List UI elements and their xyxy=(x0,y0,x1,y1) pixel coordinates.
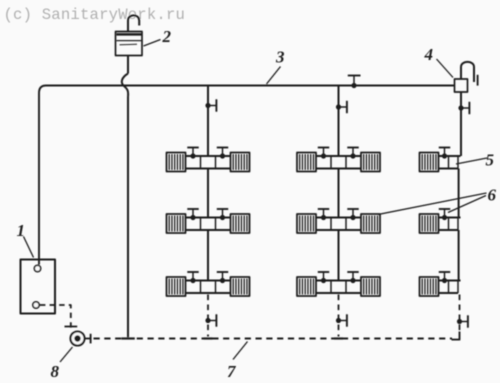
expansion pipe from tank down to crossing xyxy=(127,56,129,74)
label 7 with leader xyxy=(227,342,248,382)
valve column3 row3 xyxy=(439,272,450,283)
radiator column3 row1 xyxy=(420,153,439,172)
label 6 with leaders xyxy=(378,186,497,215)
pump outlet stub with flange tick xyxy=(85,334,91,344)
air collector 4 box xyxy=(455,79,468,92)
radiator column1 row3 right xyxy=(231,277,250,296)
valve on riser 1 return xyxy=(205,314,216,326)
return main 7 dashed xyxy=(94,338,453,340)
valve column1 row2 left xyxy=(187,209,198,220)
riser 3 dashed return segment xyxy=(459,295,461,331)
riser 2 segment rows 2-3 xyxy=(338,230,340,281)
connection pipes column3 row1 xyxy=(439,156,461,169)
riser 3 upper segment xyxy=(460,92,462,156)
valve column2 row3 right xyxy=(347,272,358,283)
junction of riser 2 with return main xyxy=(334,337,343,339)
valve on riser 2 return xyxy=(336,314,347,326)
expansion pipe vertical down to return line xyxy=(127,97,129,338)
connection pipes column1 row2 xyxy=(186,218,231,231)
valve column2 row1 left xyxy=(318,148,329,159)
svg-text:3: 3 xyxy=(275,48,285,67)
radiator column2 row2 right xyxy=(361,214,380,233)
return main right corner elbow xyxy=(452,332,460,340)
boiler 1 xyxy=(21,260,56,314)
riser 2 upper segment xyxy=(338,86,340,157)
connection pipes column3 row3 xyxy=(439,281,461,294)
valve column2 row2 left xyxy=(318,209,329,220)
riser 1 segment rows 1-2 xyxy=(207,169,209,218)
valve on riser 2 top xyxy=(336,101,347,113)
connection pipes column3 row2 xyxy=(439,218,461,231)
radiator column2 row3 right xyxy=(361,277,380,296)
connection pipes column2 row2 xyxy=(316,218,361,231)
riser 2 segment rows 1-2 xyxy=(338,169,340,218)
dashed pipe from boiler to pump xyxy=(40,305,71,331)
valve column1 row3 right xyxy=(217,272,228,283)
connection pipes column2 row1 xyxy=(316,156,361,169)
radiator column2 row1 left xyxy=(297,153,316,172)
junction tick of expansion pipe on return xyxy=(122,337,135,339)
riser 1 segment rows 2-3 xyxy=(207,230,209,281)
valve column1 row1 right xyxy=(217,148,228,159)
radiator column2 row1 right xyxy=(361,153,380,172)
overflow hook pipe of expansion tank xyxy=(128,15,139,32)
valve on riser 3 top xyxy=(458,102,469,114)
connection pipes column1 row1 xyxy=(186,156,231,169)
label 5 with leader xyxy=(456,151,495,170)
label 3 with leader xyxy=(267,48,286,85)
riser 1 upper segment xyxy=(207,86,209,157)
connection pipes column1 row3 xyxy=(186,281,231,294)
valve column1 row2 right xyxy=(217,209,228,220)
valve column2 row2 right xyxy=(347,209,358,220)
svg-text:6: 6 xyxy=(488,186,497,205)
valve column1 row1 left xyxy=(187,148,198,159)
riser 1 dashed return segment xyxy=(207,295,209,337)
radiator column3 row2 xyxy=(420,214,439,233)
svg-text:(c) SanitaryWork.ru: (c) SanitaryWork.ru xyxy=(4,6,186,24)
valve column1 row3 left xyxy=(187,272,198,283)
pipe crossing jump over supply main xyxy=(122,74,128,97)
expansion tank 2 xyxy=(116,32,143,56)
valve on supply main xyxy=(348,76,361,89)
valve on riser 3 return xyxy=(457,315,468,327)
label 1 with leader xyxy=(17,221,34,258)
radiator column1 row2 left xyxy=(167,214,186,233)
pump 8 xyxy=(71,332,85,346)
tick on pump inlet pipe xyxy=(65,326,78,328)
riser 3 segment rows 2-3 xyxy=(458,230,460,282)
riser 3 segment rows 1-2 xyxy=(458,169,460,219)
supply main 3 horizontal xyxy=(46,85,455,87)
label 8 with leader xyxy=(51,347,73,381)
svg-text:7: 7 xyxy=(227,362,237,381)
radiator column1 row1 left xyxy=(167,153,186,172)
junction of riser 1 with return main xyxy=(204,337,213,339)
radiator column1 row1 right xyxy=(231,153,250,172)
air collector end tick xyxy=(477,75,479,86)
watermark SanitaryWork.ru xyxy=(4,6,186,24)
valve column3 row1 xyxy=(439,148,450,159)
svg-text:2: 2 xyxy=(162,27,172,46)
radiator column1 row3 left xyxy=(167,277,186,296)
svg-text:4: 4 xyxy=(424,45,434,64)
connection pipes column2 row3 xyxy=(316,281,361,294)
label 4 with leader xyxy=(424,45,454,78)
radiator column1 row2 right xyxy=(231,214,250,233)
air collector loop pipe xyxy=(461,62,474,82)
riser 2 dashed return segment xyxy=(338,295,340,337)
valve column3 row2 xyxy=(439,209,450,220)
valve on riser 1 top xyxy=(205,99,216,111)
valve column2 row1 right xyxy=(347,148,358,159)
label 2 with leader xyxy=(144,27,172,46)
svg-text:8: 8 xyxy=(51,362,60,381)
supply main left corner and drop to boiler xyxy=(39,86,46,265)
radiator column2 row3 left xyxy=(297,277,316,296)
svg-text:5: 5 xyxy=(486,151,495,170)
valve column2 row3 left xyxy=(318,272,329,283)
radiator column2 row2 left xyxy=(297,214,316,233)
radiator column3 row3 xyxy=(420,277,439,296)
